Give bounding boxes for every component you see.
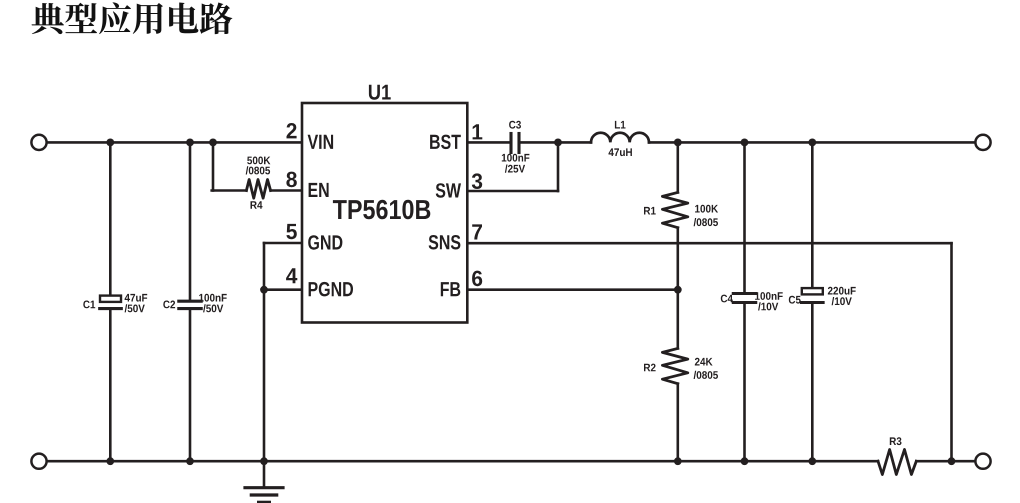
wire R4 left lead: [212, 189, 247, 192]
wire GND vertical to bottom rail: [263, 243, 266, 461]
label /10V (C4): [758, 302, 778, 310]
capacitor C3 100nF/25V plates: [509, 134, 512, 153]
label /0805 (R2): [694, 371, 718, 379]
wire SNS column down to bottom rail: [950, 243, 953, 461]
capacitor C5 220uF/10V plates: [802, 288, 823, 294]
label /50V (C1): [125, 304, 145, 312]
label U1: [369, 85, 391, 100]
junction C1/bottom rail: [106, 457, 114, 465]
label /0805 (R1): [694, 218, 718, 226]
junction FB/divider node: [674, 286, 682, 294]
label 100nF (C2): [199, 294, 227, 302]
label /25V: [505, 165, 525, 173]
resistor R3 zigzag: [878, 450, 916, 475]
pin label EN: [309, 183, 329, 197]
terminal output -: [975, 454, 990, 469]
wire R4 branch down from top rail: [212, 142, 215, 190]
label 100nF (C3): [502, 154, 530, 162]
junction SNS column/bottom rail: [948, 457, 956, 465]
terminal input +: [31, 135, 46, 150]
wire BST pin 1 to C3: [467, 141, 510, 144]
label TP5610B: [333, 200, 430, 220]
wire C2 bottom: [189, 310, 192, 462]
junction C2/top rail: [186, 139, 194, 147]
label 500K: [247, 157, 270, 165]
wire C2 top: [189, 142, 192, 299]
junction C4/bottom rail: [741, 457, 749, 465]
wire C5 top: [811, 142, 814, 288]
pin label FB: [441, 282, 461, 296]
pin label SW: [436, 183, 461, 198]
label C1: [83, 301, 95, 309]
wire SNS pin 7 to right column: [467, 242, 951, 245]
wire C1 top: [109, 142, 112, 295]
label 24K: [695, 358, 713, 366]
pin number 3: [472, 173, 482, 189]
label R4: [251, 201, 263, 209]
wire C4 bottom: [743, 304, 746, 461]
title 典型应用电路 (Typical Application Circuit): [32, 2, 233, 34]
label R2: [644, 364, 656, 372]
wire PGND pin 4: [264, 288, 302, 291]
wire EN pin 8 lead: [271, 189, 302, 192]
label L1: [615, 121, 626, 129]
junction C4/top rail: [741, 139, 749, 147]
wire SW up to BST node: [557, 142, 560, 191]
wire top rail left (VIN input to pin 2): [39, 141, 302, 144]
junction C5/bottom rail: [808, 457, 816, 465]
wire FB pin 6 to divider node: [467, 288, 678, 291]
wire SW pin 3: [467, 190, 558, 193]
resistor R2 24K/0805 zigzag: [662, 348, 687, 383]
label 100K: [695, 205, 718, 213]
wire GND pin 5: [264, 242, 302, 245]
pin label PGND: [309, 282, 353, 297]
label C4: [721, 295, 733, 303]
junction PGND/GND column: [260, 286, 268, 294]
label C5: [789, 296, 801, 304]
pin label GND: [308, 235, 342, 250]
pin number 8: [286, 172, 296, 188]
IC U1 TP5610B body: [302, 103, 467, 323]
terminal input -: [31, 454, 46, 469]
label C3: [509, 121, 521, 129]
label 100nF (C4): [755, 292, 783, 300]
pin number 7: [472, 224, 482, 239]
capacitor C4 100nF/10V plates: [733, 292, 755, 295]
capacitor C1 47uF/50V plates: [100, 296, 121, 302]
junction C2/bottom rail: [186, 457, 194, 465]
junction L1 out/R1: [674, 139, 682, 147]
label /50V (C2): [203, 304, 223, 312]
junction C5/top rail: [808, 139, 816, 147]
wire top rail right (L1 to VOUT): [649, 141, 983, 144]
pin number 5: [286, 224, 296, 239]
ground symbol: [245, 486, 283, 489]
wire C4 top: [743, 142, 746, 292]
wire R1 bottom lead / FB node: [676, 228, 679, 290]
wire C3 to L1: [520, 141, 591, 144]
pin label VIN: [308, 135, 334, 149]
label R1: [644, 207, 656, 215]
junction GND/bottom rail: [260, 457, 268, 465]
terminal output +: [975, 135, 990, 150]
junction C1/top rail: [106, 139, 114, 147]
pin number 6: [472, 271, 482, 287]
resistor R4 500K/0805 zigzag: [246, 180, 270, 199]
pin number 2: [287, 123, 297, 138]
inductor L1 47uH humps: [591, 133, 649, 143]
wire C1 bottom: [109, 310, 112, 462]
label 47uH: [609, 148, 632, 156]
wire bottom rail left: [39, 460, 878, 463]
wire C5 bottom: [811, 304, 814, 461]
pin number 4: [286, 268, 297, 283]
resistor R1 100K/0805 zigzag: [662, 192, 687, 227]
wire R1 top lead: [676, 142, 679, 192]
label 47uF: [125, 294, 148, 302]
pin label BST: [430, 135, 461, 150]
label C2: [163, 301, 175, 309]
label 220uF: [828, 287, 856, 295]
wire R2 top lead: [676, 290, 679, 349]
wire bottom rail right of R3: [916, 460, 983, 463]
junction BST/SW node: [554, 139, 562, 147]
capacitor C2 100nF/50V plates: [179, 300, 201, 303]
junction R2/bottom rail: [674, 457, 682, 465]
label /10V (C5): [832, 297, 852, 305]
label R3: [890, 437, 902, 445]
wire ground stem: [263, 461, 266, 487]
pin label SNS: [429, 235, 461, 250]
junction R4 branch/top rail: [209, 139, 217, 147]
label /0805 (R4): [246, 166, 270, 174]
pin number 1: [473, 124, 483, 139]
wire R2 bottom lead: [676, 384, 679, 462]
